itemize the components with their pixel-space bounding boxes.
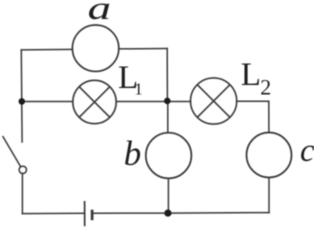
wire top-left horizontal segment — [21, 48, 72, 51]
wire bottom-left (corner to battery) — [22, 212, 84, 214]
label a — [88, 0, 111, 26]
battery short plate — [91, 210, 94, 221]
meter b — [146, 133, 192, 179]
svg-text:a: a — [88, 0, 111, 26]
wire middle-left (node to L1) — [22, 101, 73, 103]
wire L1 to node — [116, 101, 167, 103]
wire switch circle down to bottom-left corner — [21, 174, 23, 214]
svg-text:b: b — [124, 134, 142, 173]
svg-text:c: c — [300, 133, 314, 169]
lamp L1 — [73, 80, 116, 123]
switch contact circle — [19, 166, 26, 173]
lamp L2 — [191, 78, 237, 124]
battery long plate — [84, 201, 86, 226]
wire left vertical (top corner to switch) — [20, 50, 23, 142]
svg-text:L: L — [241, 57, 261, 93]
wire node down to meter b — [167, 102, 169, 133]
wire L2 to right corner and down to c — [237, 101, 269, 132]
node bottom junction dot — [164, 210, 171, 217]
node left junction dot — [19, 98, 26, 105]
switch blade — [3, 136, 21, 167]
meter c — [247, 133, 292, 178]
meter a — [72, 25, 118, 71]
wire bottom (battery to right corner) — [92, 212, 269, 215]
svg-text:2: 2 — [260, 75, 271, 100]
wire right-mid vertical (top wire down to node) — [166, 49, 168, 102]
wire top-right horizontal segment — [119, 48, 167, 50]
wire meter b to bottom node — [167, 178, 169, 213]
wire meter c to bottom-right corner — [268, 178, 270, 213]
wire node to L2 — [168, 101, 191, 103]
svg-text:1: 1 — [134, 80, 143, 99]
node center junction dot — [164, 98, 171, 105]
